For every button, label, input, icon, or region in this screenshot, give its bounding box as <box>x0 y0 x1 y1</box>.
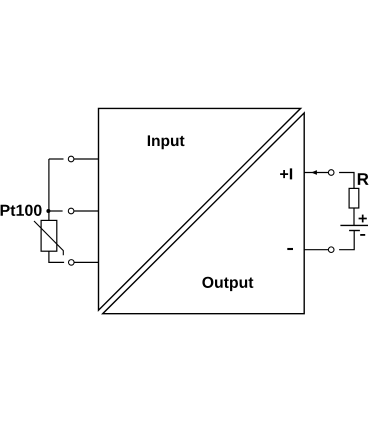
label Output <box>202 277 253 291</box>
wire: node to Pt100 top <box>48 211 50 220</box>
battery BT1 negative plate <box>349 230 360 232</box>
label Pt100 <box>1 205 42 216</box>
isolator U1 input triangle <box>99 108 301 310</box>
terminal circle 2 (middle left) <box>68 208 74 214</box>
wire: +I from box to terminal <box>304 172 328 174</box>
isolator U1 output triangle <box>103 113 305 314</box>
wire: R to battery <box>353 208 355 225</box>
battery BT1 positive plate <box>340 224 368 226</box>
wire: middle terminal to box <box>74 210 99 212</box>
wire: minus terminal to box <box>304 249 328 251</box>
wire: left bus vertical <box>48 159 50 211</box>
wire: middle row from node to terminal <box>49 210 63 212</box>
terminal circle 4 (+I) <box>328 170 334 176</box>
resistor Pt100 body <box>41 220 57 251</box>
resistor R body <box>349 188 359 208</box>
label R <box>358 173 369 185</box>
terminal circle 1 (top left) <box>68 156 74 162</box>
label minus (output terminal) <box>287 248 293 250</box>
battery minus label <box>360 234 365 236</box>
current arrow into +I <box>311 170 317 175</box>
wire: bottom terminal to box <box>74 261 98 263</box>
wire: battery to minus terminal <box>339 231 354 250</box>
terminal circle 5 (minus) <box>328 247 334 253</box>
label +I <box>280 168 292 179</box>
battery plus label <box>359 218 367 220</box>
wire: top row from bus to terminal <box>49 158 64 160</box>
label Input <box>148 135 185 149</box>
wire: top terminal to box <box>74 158 99 160</box>
wire: Pt100 bottom to bottom terminal <box>49 251 64 262</box>
Pt100 temperature-dependence diagonal <box>34 221 63 255</box>
terminal circle 3 (bottom left) <box>69 260 75 266</box>
wire: +I terminal to R <box>339 173 354 189</box>
node A (Pt100 junction dot) <box>46 209 50 213</box>
